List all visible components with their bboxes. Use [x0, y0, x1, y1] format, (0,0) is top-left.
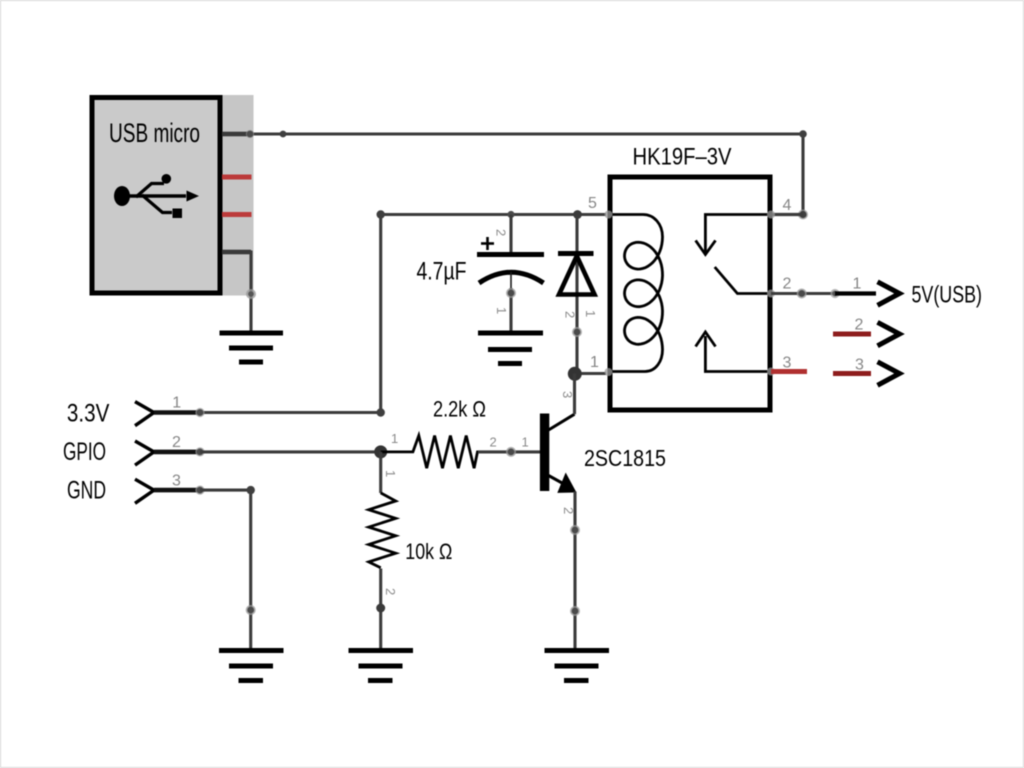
svg-text:HK19F–3V: HK19F–3V [633, 144, 732, 171]
relay HK19F-3V label [633, 144, 732, 171]
svg-text:GND: GND [67, 477, 106, 505]
dot at arrow1 pin end [830, 289, 839, 298]
transistor base pin1 number [522, 435, 529, 450]
resistor R2 pin2 number (rotated) [383, 588, 398, 595]
wire relay pin4 stub [771, 213, 803, 216]
svg-text:1: 1 [853, 276, 862, 293]
relay pin4 wire end dot [798, 210, 808, 220]
relay pin2 number label [783, 276, 792, 293]
svg-text:2: 2 [855, 317, 864, 334]
svg-text:2: 2 [783, 276, 792, 293]
USB pin 2 stub (red) [222, 175, 252, 180]
svg-text:1: 1 [583, 310, 598, 317]
wire resistor to transistor base [478, 450, 541, 453]
corner dot GND wire [247, 486, 255, 494]
svg-text:3: 3 [855, 357, 864, 374]
connector GPIO pin [154, 447, 205, 456]
waypoint dot under capacitor [506, 288, 516, 298]
GND connector label [67, 477, 106, 505]
waypoint dot GND riser [246, 605, 256, 615]
relay switch blade to pin2 [715, 267, 770, 294]
svg-text:1: 1 [172, 395, 181, 412]
relay pin1 number label [590, 354, 599, 371]
USB micro connector body [92, 95, 254, 296]
svg-text:1: 1 [494, 307, 509, 314]
dot on pin2 wire [797, 289, 807, 299]
svg-text:10k Ω: 10k Ω [405, 539, 452, 564]
svg-text:3.3V: 3.3V [67, 399, 110, 427]
svg-text:2SC1815: 2SC1815 [584, 445, 666, 471]
ground under USB [220, 333, 284, 362]
connector pin3 number [172, 472, 181, 489]
ground under GND connector [219, 651, 284, 681]
USB pin 3 stub (red) [222, 212, 252, 217]
collector pin3 number (rotated) [560, 391, 575, 398]
resistor R2 bottom lead [379, 569, 382, 651]
dot between resistor and base [506, 447, 516, 457]
connector 3.3V chevron [135, 402, 154, 426]
wire relay pin2 to output arrow 1 [771, 292, 836, 295]
svg-text:1: 1 [522, 435, 529, 450]
capacitor C1 4.7uF polarized [477, 255, 544, 293]
connector pin2 number [172, 434, 181, 451]
wire USB pin1 to relay pin4 (top net) [222, 134, 803, 215]
svg-text:1: 1 [391, 431, 398, 446]
USB micro label [109, 118, 200, 148]
arrow2 pin number [855, 317, 864, 334]
resistor R1 pin2 number [490, 435, 497, 450]
svg-text:3: 3 [783, 355, 792, 372]
resistor R1 pin1 number [391, 431, 398, 446]
svg-text:GPIO: GPIO [63, 438, 106, 466]
svg-text:2: 2 [561, 507, 576, 514]
relay HK19F-3V box [610, 177, 770, 410]
GPIO connector label [63, 438, 106, 466]
resistor R2 10k lead from junction [379, 452, 382, 493]
svg-text:3: 3 [172, 472, 181, 489]
svg-text:1: 1 [590, 354, 599, 371]
transistor Q1 2SC1815 [540, 414, 575, 492]
resistor R2 10k label [405, 539, 452, 564]
arrow3 pin number [855, 357, 864, 374]
svg-text:2: 2 [172, 434, 181, 451]
node dot diode / relay pin5 branch [573, 210, 582, 219]
5V(USB) label [912, 282, 983, 309]
waypoint dot under 10k [376, 604, 385, 613]
svg-text:2: 2 [563, 311, 578, 318]
resistor R1 2.2k label [433, 397, 486, 422]
connector GND pin [154, 486, 205, 495]
GPIO junction dot [374, 445, 387, 458]
capacitor pin 1 label (rotated) [494, 307, 509, 314]
svg-text:4: 4 [783, 197, 792, 214]
svg-text:5: 5 [588, 195, 597, 212]
diode D1 (cathode bar + triangle) [558, 254, 595, 295]
transistor emitter wire [573, 492, 576, 651]
arrow1 pin number [853, 276, 862, 293]
connector 3.3V pin [154, 408, 205, 417]
connector GPIO chevron [135, 441, 154, 465]
ground under 10k [349, 651, 414, 681]
corner dot 3.3V [377, 408, 385, 416]
node dot capacitor branch [507, 211, 514, 218]
wire GND to ground [200, 490, 251, 650]
connector GND chevron [135, 479, 154, 503]
svg-text:USB micro: USB micro [109, 118, 200, 148]
relay pin3 number label [783, 355, 792, 372]
svg-text:2: 2 [383, 588, 398, 595]
ground under capacitor [478, 333, 543, 364]
svg-text:2.2k Ω: 2.2k Ω [433, 397, 486, 422]
diode D1 top lead [575, 215, 578, 374]
relay pin3 red stub [771, 369, 807, 374]
3.3V net wire: connector to relay pin5 row [200, 215, 606, 413]
relay coil [608, 215, 663, 372]
output arrow 3 [878, 362, 900, 386]
relay border pin bubbles [605, 211, 776, 377]
relay pin5 number label [588, 195, 597, 212]
ground under emitter [545, 651, 610, 681]
relay switch contact from pin4 (arrow down) [696, 215, 770, 255]
relay switch contact from pin3 (arrow up) [696, 332, 770, 372]
corner dot top of 3.3V riser [377, 210, 385, 218]
USB pin 4 stub [222, 250, 251, 255]
waypoint dot top wire [280, 131, 287, 138]
connector pin1 number [172, 395, 181, 412]
svg-text:5V(USB): 5V(USB) [912, 282, 983, 309]
capacitor pin 2 label (rotated) [494, 229, 509, 236]
relay pin4 number label [783, 197, 792, 214]
waypoint dot emitter 1 [570, 525, 580, 535]
resistor R2 pin1 number (rotated) [383, 470, 398, 477]
svg-text:4.7µF: 4.7µF [417, 258, 467, 286]
resistor R2 10k zigzag [369, 493, 396, 568]
output arrow 2 [878, 322, 900, 346]
output arrow 1 (5V USB) [835, 282, 900, 306]
transistor label 2SC1815 [584, 445, 666, 471]
waypoint dot on diode lead [572, 327, 582, 337]
diode pin 2 label (rotated) [563, 311, 578, 318]
output arrow 3 red stub [833, 371, 871, 376]
USB trident icon [114, 174, 199, 218]
output arrow 2 red stub [833, 332, 871, 337]
capacitor C1 top lead [509, 215, 512, 253]
emitter pin2 number (rotated) [561, 507, 576, 514]
wire USB pin4 to ground [222, 252, 251, 333]
diode pin 1 label (rotated) [583, 310, 598, 317]
resistor R1 2.2k zigzag [381, 436, 511, 469]
capacitor value label 4.7uF [417, 258, 467, 286]
wire GPIO to resistor junction [200, 450, 381, 453]
svg-text:3: 3 [560, 391, 575, 398]
waypoint dot [246, 289, 256, 299]
USB pin 1 stub [222, 132, 253, 137]
3.3V connector label [67, 399, 110, 427]
plus sign of capacitor [481, 237, 494, 250]
svg-text:1: 1 [383, 470, 398, 477]
transistor collector wire [573, 374, 576, 415]
junction dot (diode/collector/relay pin1) [568, 367, 582, 381]
svg-text:2: 2 [490, 435, 497, 450]
junction dot on top wire [246, 130, 254, 138]
svg-text:2: 2 [494, 229, 509, 236]
capacitor bottom lead [509, 288, 512, 333]
waypoint dot emitter 2 [570, 606, 580, 616]
corner dot top right [799, 130, 807, 138]
wire junction to relay pin1 [575, 372, 607, 375]
